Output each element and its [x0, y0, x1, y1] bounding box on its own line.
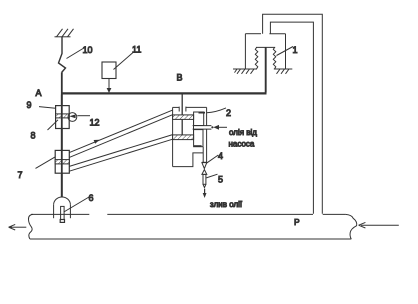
- lower link (lever pair to sleeve): [69, 135, 172, 172]
- svg-text:насоса: насоса: [229, 140, 255, 149]
- valve sleeve top: [173, 107, 207, 112]
- label 10: [67, 45, 93, 59]
- label 7: [18, 157, 56, 180]
- spool middle land: [194, 130, 203, 147]
- roller 12: [68, 113, 100, 128]
- sleeve inner right wall: [193, 119, 195, 134]
- bellows actuator 1 : housing: [245, 34, 285, 69]
- spool stem: [202, 147, 204, 162]
- svg-text:2: 2: [226, 108, 231, 118]
- spool top land: [194, 112, 205, 126]
- label 2: [207, 108, 231, 118]
- main horizontal bar (beam): [61, 92, 267, 94]
- cam band top edge: [31, 213, 346, 215]
- svg-text:Р: Р: [294, 217, 300, 227]
- valve sleeve left wall: [172, 107, 174, 166]
- label 1: [277, 45, 298, 56]
- svg-text:8: 8: [31, 131, 36, 141]
- bellows rod down to beam: [265, 47, 267, 92]
- valve right wall: [206, 107, 208, 162]
- block 7 (lower guide on rod): [55, 150, 69, 173]
- drain down arrow: [203, 189, 207, 198]
- bellows corrugations and top: [255, 47, 275, 68]
- label 9: [27, 100, 56, 110]
- rod (left vertical, element through 9,7 to follower 6): [61, 73, 63, 198]
- sleeve lower hatched land: [173, 135, 194, 140]
- label 6: [64, 193, 94, 212]
- cam band bottom edge: [30, 238, 351, 240]
- svg-text:4: 4: [218, 151, 223, 161]
- label 5: [206, 174, 223, 184]
- svg-text:5: 5: [218, 175, 223, 185]
- drain valve 4 (funnel triangles): [202, 162, 207, 174]
- svg-text:A: A: [36, 88, 42, 98]
- svg-text:7: 7: [18, 170, 23, 180]
- valve rod from beam: [181, 95, 183, 136]
- label 4: [206, 151, 223, 163]
- valve lower body step: [173, 153, 203, 167]
- svg-text:олія від: олія від: [229, 128, 257, 137]
- right arrow: [359, 222, 399, 228]
- follower 6 (dome): [54, 197, 71, 222]
- spring 10 (break symbol in rod): [59, 37, 66, 73]
- box 11: [102, 45, 141, 94]
- svg-text:9: 9: [27, 100, 32, 110]
- band right wavy edge: [346, 214, 357, 239]
- inlet arrow: [211, 125, 227, 130]
- pipe from bellows to band (double line): [263, 14, 323, 214]
- ceiling fixed support: [55, 29, 74, 37]
- upper link (lever pair to sleeve): [69, 110, 172, 157]
- left arrow: [9, 224, 27, 230]
- band left wavy edge: [28, 214, 33, 239]
- sleeve upper hatched land: [173, 115, 194, 120]
- rod over blocks: [61, 95, 63, 198]
- ground support left under bellows: [233, 69, 257, 74]
- svg-text:12: 12: [90, 118, 100, 128]
- oil inlet port: [193, 126, 212, 130]
- label 8: [31, 120, 59, 141]
- svg-text:злив олії: злив олії: [210, 200, 243, 209]
- svg-text:6: 6: [89, 193, 94, 203]
- svg-text:1: 1: [293, 45, 298, 55]
- ground support right under bellows: [274, 69, 293, 74]
- svg-text:10: 10: [83, 45, 93, 55]
- drain tube 5: [203, 174, 206, 187]
- svg-text:B: B: [177, 73, 183, 83]
- block 9 (upper guide on rod): [56, 106, 70, 129]
- svg-text:11: 11: [132, 45, 141, 55]
